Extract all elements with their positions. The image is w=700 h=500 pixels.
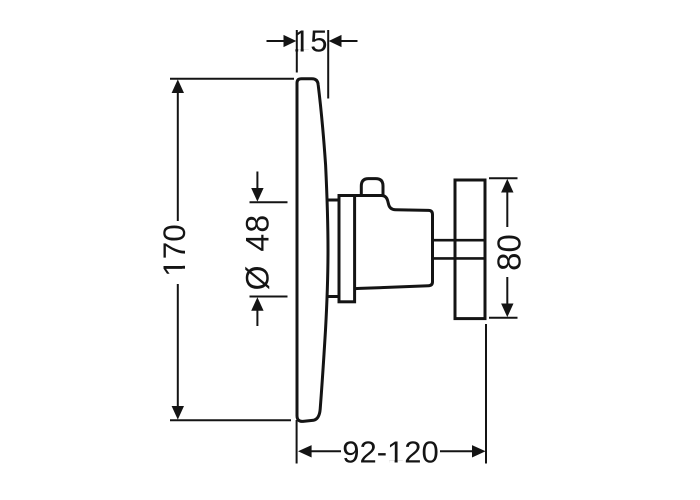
wall plate (escutcheon, side profile) — [297, 79, 328, 422]
dimension 170: top arrow — [172, 79, 184, 93]
dimension 80: bottom arrow — [501, 304, 513, 318]
handle stem / hub lines — [434, 239, 485, 242]
dimension 170: bottom arrow — [172, 406, 184, 420]
valve cartridge body — [355, 196, 433, 289]
dimension 80: top arrow — [501, 179, 513, 193]
dimension Ø48: down arrow — [251, 188, 263, 202]
dimension 80: top extension line — [489, 177, 518, 179]
dimension 170: bottom extension line — [170, 419, 291, 421]
safety-stop knob on top of valve body — [361, 179, 383, 196]
dimension Ø48: upper leader line — [256, 172, 258, 190]
bottom stub line plate-to-sleeve — [328, 295, 339, 298]
dimension Ø48: lower extension line — [250, 296, 288, 298]
cross handle (side view) — [455, 180, 485, 319]
sleeve flange (thin rectangle behind plate) — [339, 196, 355, 302]
svg-text:80: 80 — [491, 234, 528, 271]
dimension 15: left arrow — [267, 40, 286, 42]
dimension 92-120: dimension line left segment — [311, 450, 342, 452]
dimension Ø48: lower leader line — [256, 310, 258, 326]
dimension 92-120: left arrow — [298, 445, 312, 457]
dimension 80: bottom extension line — [489, 317, 518, 319]
dimension 170: top extension line — [170, 78, 294, 80]
top stub line plate-to-sleeve — [328, 199, 339, 202]
dimension 15: right arrow — [341, 40, 358, 42]
dimension 92-120: left extension line — [296, 420, 298, 464]
svg-text:15: 15 — [293, 24, 327, 59]
dimension Ø48: upper extension line — [250, 201, 288, 203]
dimension 15: left extension line — [296, 30, 298, 73]
dimension 15: right extension line — [327, 30, 329, 99]
dimension 80: dimension line upper segment — [506, 191, 508, 228]
dimension 170: dimension line lower segment — [177, 284, 179, 408]
dimension 92-120: right extension line — [485, 324, 487, 464]
svg-text:Ø 48: Ø 48 — [240, 214, 276, 291]
dimension 170: dimension line upper segment — [177, 91, 179, 221]
dimension 92-120: dimension line right segment — [440, 450, 474, 452]
dimension 92-120: right arrow — [472, 445, 486, 457]
dimension Ø48: up arrow — [251, 297, 263, 311]
svg-text:170: 170 — [156, 224, 192, 277]
svg-text:92-120: 92-120 — [342, 435, 439, 470]
dimension 80: dimension line lower segment — [506, 277, 508, 306]
